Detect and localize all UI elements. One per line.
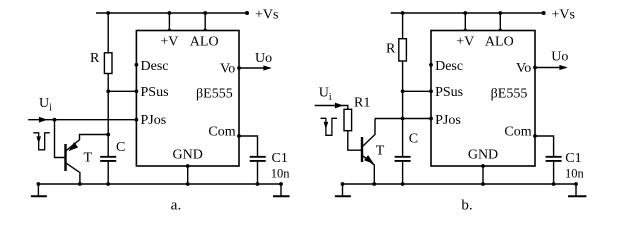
svg-text:T: T <box>84 151 93 166</box>
resistor R1 (b) <box>344 109 352 130</box>
node: C1 / ground rail junction (b) <box>552 182 556 186</box>
wire: input Ui line (b) <box>315 106 348 110</box>
output arrowhead Uo (a) <box>263 65 271 70</box>
wire: ground rail (b) <box>343 183 577 185</box>
node: +Vs terminal (a) <box>245 11 249 15</box>
svg-text:βE555: βE555 <box>196 87 233 102</box>
node: C1 / ground rail junction (a) <box>256 182 260 186</box>
transistor T emitter arrow (NPN, pointing out) (b) <box>364 155 374 164</box>
pin +V of U2 (b) <box>463 29 467 33</box>
input signal arrowhead (b) <box>335 103 344 109</box>
capacitor C1 (a) <box>250 156 266 158</box>
node: rail junction with resistor R lead (a) <box>106 11 110 15</box>
pin PSus of U2 (b) <box>429 89 433 93</box>
wire: +Vs supply rail (circuit a) <box>96 12 247 14</box>
svg-text:GND: GND <box>468 147 498 162</box>
output arrowhead Uo (b) <box>559 65 567 70</box>
svg-text:ALO: ALO <box>485 35 514 50</box>
svg-text:C1: C1 <box>565 151 581 166</box>
svg-text:+V: +V <box>456 35 474 50</box>
svg-text:Desc: Desc <box>435 59 463 74</box>
pin Com of U1 (a) <box>237 134 241 138</box>
transistor T base bar (b) <box>361 137 363 162</box>
pin PJos of U2 (b) <box>429 117 433 121</box>
IC U2 (βE555 timer) body (b) <box>431 31 535 167</box>
svg-text:T: T <box>376 143 385 158</box>
wire: +V pin to supply rail (a) <box>168 13 170 31</box>
node: ground rail right end (a) <box>279 182 283 186</box>
svg-text:PSus: PSus <box>141 85 169 100</box>
svg-text:Uo: Uo <box>551 49 568 64</box>
node: rail junction with +V pin wire (a) <box>168 11 172 15</box>
svg-text:a.: a. <box>171 197 181 213</box>
svg-text:ALO: ALO <box>190 35 219 50</box>
wire: C bottom lead to ground rail (b) <box>402 162 404 185</box>
ground symbol left (a) <box>37 184 39 195</box>
node: rail junction with resistor R lead (b) <box>401 11 405 15</box>
wire: Com pin to capacitor C1 (a) <box>239 136 258 156</box>
wire: PSus pin connection (b) <box>403 90 431 92</box>
pin ALO of U1 (a) <box>203 29 207 33</box>
wire: base branch from input node (a) <box>55 120 66 158</box>
node: rail junction with ALO pin wire (b) <box>498 11 502 15</box>
pin +V of U1 (a) <box>168 29 172 33</box>
wire: timing node to capacitor C (b) <box>402 119 404 157</box>
node: GND / ground rail junction (b) <box>481 182 485 186</box>
node: ground rail left end (a) <box>37 182 41 186</box>
svg-text:Com: Com <box>208 124 235 139</box>
trigger pulse symbol (b) <box>321 118 338 135</box>
svg-text:R: R <box>90 51 100 66</box>
node: GND / ground rail junction (a) <box>186 182 190 186</box>
trigger pulse falling-edge arrow (a) <box>36 136 41 143</box>
op-amp-style IC U1 (βE555 timer) body (a) <box>136 31 239 167</box>
svg-text:+Vs: +Vs <box>552 7 575 22</box>
svg-text:GND: GND <box>173 147 203 162</box>
resistor R (a) <box>104 53 112 74</box>
transistor T emitter arrow (PNP, pointing to base) (a) <box>68 142 78 151</box>
pin PSus of U1 (a) <box>135 89 139 93</box>
wire: Com pin to capacitor C1 (b) <box>535 136 554 156</box>
wire: timing node vertical to PJos junction (b) <box>402 91 404 118</box>
trigger pulse symbol (a) <box>33 133 50 150</box>
svg-text:10n: 10n <box>271 167 291 181</box>
transistor T emitter path to timing node (a) <box>66 135 108 151</box>
node: C / ground rail junction (a) <box>106 182 110 186</box>
resistor R (b) <box>399 39 407 61</box>
svg-text:Com: Com <box>504 124 531 139</box>
pin ALO of U2 (b) <box>498 29 502 33</box>
pin GND of U1 (a) <box>186 164 190 168</box>
svg-text:Uo: Uo <box>255 51 272 66</box>
capacitor C (b) <box>395 156 411 158</box>
transistor T collector path to ground rail (a) <box>66 163 80 184</box>
pin Desc of U1 (a) <box>135 63 139 67</box>
wire: +V pin to supply rail (b) <box>464 13 466 31</box>
node: C / ground rail junction (b) <box>401 182 405 186</box>
node: input / base branch junction (a) <box>53 118 57 122</box>
svg-text:R: R <box>386 41 396 56</box>
ground symbol right (b) <box>575 184 577 195</box>
svg-text:+Vs: +Vs <box>255 7 278 22</box>
svg-text:PJos: PJos <box>141 113 167 128</box>
wire: GND pin to ground rail (a) <box>187 166 189 184</box>
capacitor C (a) <box>100 156 116 158</box>
pin GND of U2 (b) <box>481 164 485 168</box>
node: ground rail right end (b) <box>574 182 578 186</box>
svg-text:R1: R1 <box>354 95 370 110</box>
wire: R1 bottom lead to base (b) <box>348 131 362 151</box>
wire: C1 bottom lead to ground rail (b) <box>553 162 555 185</box>
transistor T collector path to timing node (b) <box>363 119 375 147</box>
node: timing node / PJos junction (b) <box>401 117 405 121</box>
wire: timing node vertical R to emitter junction (a) <box>107 91 109 134</box>
wire: PSus pin connection (a) <box>108 90 136 92</box>
svg-text:PJos: PJos <box>435 113 461 128</box>
input signal arrowhead (a) <box>39 117 48 123</box>
pin Vo of U2 (b) <box>533 66 537 70</box>
node: R / PSus junction (b) <box>401 89 405 93</box>
svg-text:C: C <box>116 140 125 155</box>
node: collector / ground rail junction (a) <box>78 182 82 186</box>
svg-text:PSus: PSus <box>435 85 463 100</box>
node: R / PSus junction (a) <box>106 89 110 93</box>
pin PJos of U1 (a) <box>135 118 139 122</box>
node: rail junction with +V pin wire (b) <box>463 11 467 15</box>
svg-text:βE555: βE555 <box>491 87 528 102</box>
svg-text:Vo: Vo <box>220 62 235 77</box>
node: emitter / ground rail junction (b) <box>372 182 376 186</box>
node: rail junction with ALO pin wire (a) <box>203 11 207 15</box>
wire: R bottom lead (a) <box>107 74 109 92</box>
node: ground rail left end (b) <box>341 182 345 186</box>
wire: +Vs supply rail (circuit b) <box>391 12 544 14</box>
wire: output Vo to Uo (b) <box>535 67 566 69</box>
wire: C1 bottom lead to ground rail (a) <box>257 162 259 185</box>
ground symbol left (b) <box>342 184 344 195</box>
node: +Vs terminal (b) <box>542 11 546 15</box>
svg-text:C1: C1 <box>272 151 288 166</box>
svg-text:Desc: Desc <box>141 59 169 74</box>
pin Vo of U1 (a) <box>237 66 241 70</box>
transistor T emitter path to ground rail (b) <box>363 156 375 184</box>
svg-text:Vo: Vo <box>516 61 531 76</box>
node: emitter / timing node junction (a) <box>106 133 110 137</box>
svg-text:10n: 10n <box>565 167 585 181</box>
wire: ALO pin to supply rail (b) <box>499 13 501 31</box>
wire: R bottom lead (b) <box>402 61 404 91</box>
wire: ALO pin to supply rail (a) <box>204 13 206 31</box>
transistor T base bar (a) <box>64 144 66 171</box>
wire: C bottom lead to ground rail (a) <box>107 162 109 185</box>
svg-text:C: C <box>409 132 418 147</box>
trigger pulse falling-edge arrow (b) <box>324 122 329 129</box>
wire: input Ui to PJos pin (a) <box>28 119 136 121</box>
ground symbol right (a) <box>280 184 282 195</box>
wire: R top lead (b) <box>402 13 404 39</box>
pin Desc of U2 (b) <box>429 63 433 67</box>
wire: GND pin to ground rail (b) <box>482 166 484 184</box>
wire: output Vo to Uo (a) <box>239 67 270 69</box>
wire: ground rail (a) <box>38 183 281 185</box>
pin Com of U2 (b) <box>533 134 537 138</box>
svg-text:+V: +V <box>160 35 178 50</box>
capacitor C1 (b) <box>546 156 562 158</box>
wire: timing node to capacitor C (a) <box>107 135 109 157</box>
svg-text:b.: b. <box>461 197 472 213</box>
wire: R top lead (a) <box>107 13 109 53</box>
wire: collector node to PJos pin (b) <box>375 118 431 120</box>
